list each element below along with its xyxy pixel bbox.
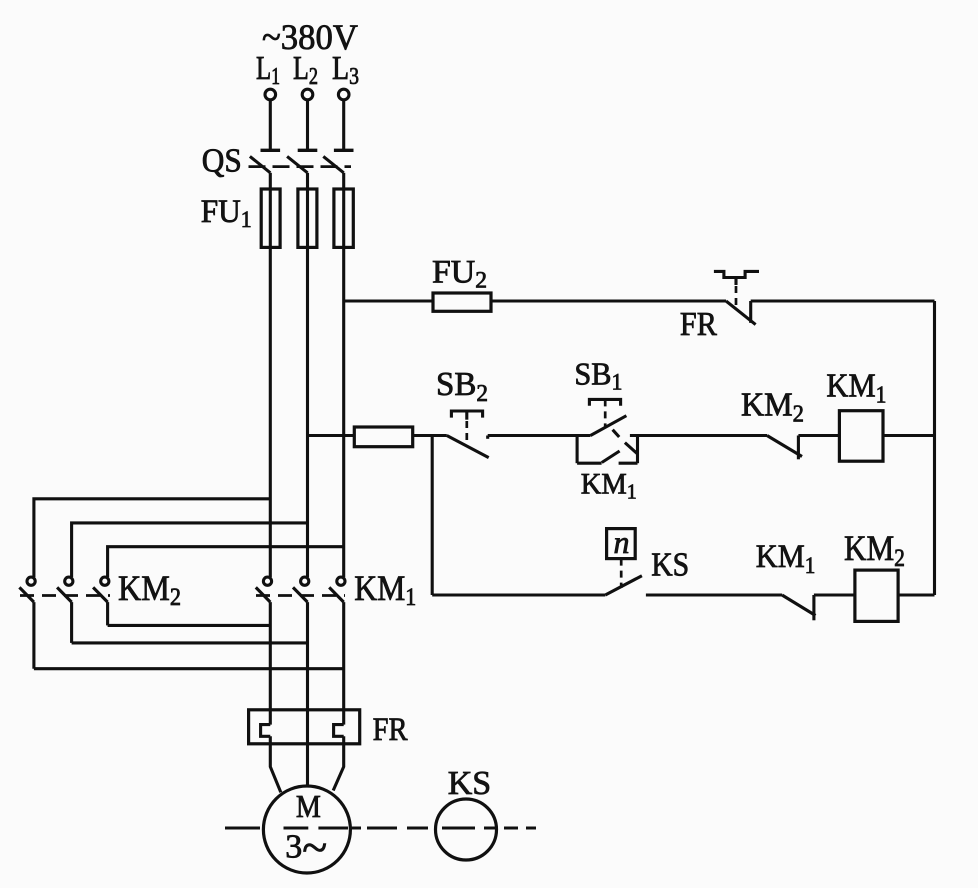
speed relay KS circle — [436, 799, 497, 860]
speed sensor n box — [607, 529, 636, 559]
button SB2 right post — [486, 436, 489, 439]
wire L2 below KM1 pole — [306, 602, 309, 786]
wire bottom crossover to L2 — [72, 641, 308, 644]
svg-text:FU1: FU1 — [201, 194, 252, 232]
control rail 2 segment — [413, 434, 447, 437]
switch QS pole 3 bar — [334, 149, 354, 152]
svg-text:FR: FR — [680, 306, 717, 343]
terminal L2 — [302, 89, 313, 100]
contactor KM1 linkage — [256, 594, 345, 597]
FR contact blade — [726, 301, 756, 325]
control rail 1 left segment — [344, 299, 433, 302]
svg-text:KS: KS — [651, 547, 689, 584]
FR contact actuator — [714, 271, 759, 277]
fuse FU1 pole 3 — [334, 189, 353, 247]
fuse FU2 — [433, 293, 491, 311]
contactor KM2 main pole 3 terminal — [101, 577, 109, 585]
control rail 2 from L2 — [308, 434, 355, 437]
contactor KM2 main pole 1 blade — [19, 587, 34, 602]
motor M circle — [263, 786, 350, 873]
svg-text:KM1: KM1 — [756, 539, 816, 578]
svg-text:n: n — [614, 524, 630, 560]
button SB2 stem dashed — [465, 421, 468, 444]
wire through fuse 3 — [342, 189, 345, 247]
wire crossover L1 to left branch 1 — [34, 499, 270, 577]
wire L3 below KM1 pole — [342, 602, 345, 725]
coil KM1 — [839, 411, 883, 462]
contactor KM1 main pole 1 terminal — [263, 577, 271, 585]
contactor KM1 main pole 3 terminal — [337, 577, 345, 585]
control rail 1 mid segment — [491, 299, 726, 302]
control rail 3 segment to KM2 coil — [814, 593, 855, 596]
contactor KM2 NC post — [797, 436, 800, 460]
SB1-KM1 link dash a — [613, 430, 620, 437]
wire QS to FU1 L1 — [269, 173, 272, 190]
button SB1 actuator bracket — [589, 399, 620, 405]
svg-text:KS: KS — [448, 765, 492, 802]
fuse FU2 second — [354, 427, 412, 447]
contactor KM2 main pole 3 blade — [93, 587, 108, 602]
thermal relay FR heater box — [249, 710, 360, 744]
contactor KM2 main pole 2 terminal — [65, 577, 73, 585]
control rail 3 left segment — [432, 593, 605, 596]
wire L1 below KM1 pole — [269, 602, 272, 725]
switch QS pole 1 bar — [261, 149, 281, 152]
svg-text:M: M — [296, 788, 321, 824]
switch QS pole 2 blade — [287, 156, 307, 172]
button SB2 stem — [465, 411, 468, 420]
wire bottom crossover to L3 — [34, 667, 344, 670]
button SB2 actuator bracket — [451, 411, 482, 418]
svg-text:SB1: SB1 — [574, 356, 622, 395]
wire bottom crossover to L1 — [108, 624, 271, 627]
svg-text:KM2: KM2 — [118, 568, 181, 611]
control rail 3 mid segment — [646, 593, 782, 596]
wire L1 terminal to QS — [269, 100, 272, 150]
KM1 selflock blade — [602, 451, 620, 463]
contactor KM1 main pole 2 blade — [293, 587, 308, 602]
fuse FU1 pole 2 — [298, 189, 317, 247]
contactor KM2 NC blade — [767, 436, 802, 457]
right vertical rail — [933, 301, 936, 595]
button SB1 blade — [591, 416, 627, 436]
wire L3 terminal to QS — [342, 100, 345, 150]
switch QS pole 3 blade — [323, 156, 343, 172]
KM1 selflock right rise — [636, 436, 639, 464]
svg-text:QS: QS — [202, 143, 242, 180]
svg-text:KM2: KM2 — [741, 387, 804, 428]
contactor KM2 linkage — [20, 594, 110, 597]
button SB2 blade — [447, 436, 489, 458]
control rail 3 right segment — [898, 593, 934, 596]
contactor KM2 main pole 1 terminal — [27, 577, 35, 585]
contactor KM1 main pole 3 blade — [329, 587, 344, 602]
wire through fuse 2 — [306, 189, 309, 247]
contactor KM1 NC post — [812, 595, 815, 620]
control rail 2 segment to KM1 coil — [798, 434, 839, 437]
wire L1 to motor — [270, 736, 281, 792]
wire left branch 2 lower — [70, 602, 73, 643]
KM1 selflock left drop — [576, 436, 579, 464]
wire left branch 1 lower — [32, 602, 35, 669]
svg-text:FU2: FU2 — [432, 255, 487, 293]
button SB1 stem dashed — [604, 399, 607, 427]
wire L2 main vertical — [306, 247, 309, 577]
contactor KM1 main pole 2 terminal — [301, 577, 309, 585]
wire L1 main vertical — [269, 247, 272, 577]
FR heater element L3 — [334, 725, 344, 737]
terminal L1 — [265, 89, 276, 100]
terminal L3 — [338, 89, 349, 100]
switch QS linkage — [249, 165, 352, 168]
relay KS contact blade — [605, 576, 642, 595]
FR contact stem dashed — [735, 286, 738, 308]
fuse FU1 pole 1 — [261, 189, 280, 247]
svg-text:KM1: KM1 — [354, 568, 416, 611]
wire QS to FU1 L3 — [342, 173, 345, 190]
FR heater element L1 — [261, 725, 271, 737]
FR contact post — [749, 301, 752, 323]
control rail 1 right segment — [751, 299, 935, 302]
switch QS pole 1 blade — [250, 156, 270, 172]
KM1 selflock bottom left — [577, 462, 602, 465]
svg-text:SB2: SB2 — [436, 366, 488, 407]
control rail 2 right segment — [883, 434, 935, 437]
svg-text:KM1: KM1 — [826, 368, 886, 409]
control rail 2 segment to KM2 contact — [630, 434, 767, 437]
svg-text:KM1: KM1 — [581, 468, 637, 504]
contactor KM1 main pole 1 blade — [256, 587, 270, 602]
wire QS to FU1 L2 — [306, 173, 309, 190]
SB1-KM1 link dash b — [625, 443, 637, 454]
wire crossover L3 to left branch 3 — [108, 547, 344, 578]
wire through fuse 1 — [269, 189, 272, 247]
KM1 selflock bottom right — [619, 462, 638, 465]
n stem dashed — [620, 559, 623, 588]
wire crossover L2 to left branch 2 — [72, 523, 308, 577]
contactor KM2 main pole 2 blade — [57, 587, 72, 602]
wire L2 terminal to QS — [306, 100, 309, 150]
branch drop to rail 3 — [431, 436, 434, 596]
switch QS pole 2 bar — [298, 149, 318, 152]
FR contact stem — [734, 278, 737, 286]
control rail 2 segment to SB1 — [488, 434, 591, 437]
shaft axis dash-dot line — [225, 827, 536, 830]
svg-text:KM2: KM2 — [844, 528, 905, 572]
contactor KM1 NC blade — [782, 595, 816, 616]
wire L3 to motor — [333, 736, 344, 790]
svg-text:FR: FR — [373, 712, 408, 748]
coil KM2 — [855, 570, 898, 621]
wire left branch 3 lower — [106, 602, 109, 625]
wire L3 main vertical — [342, 247, 345, 577]
